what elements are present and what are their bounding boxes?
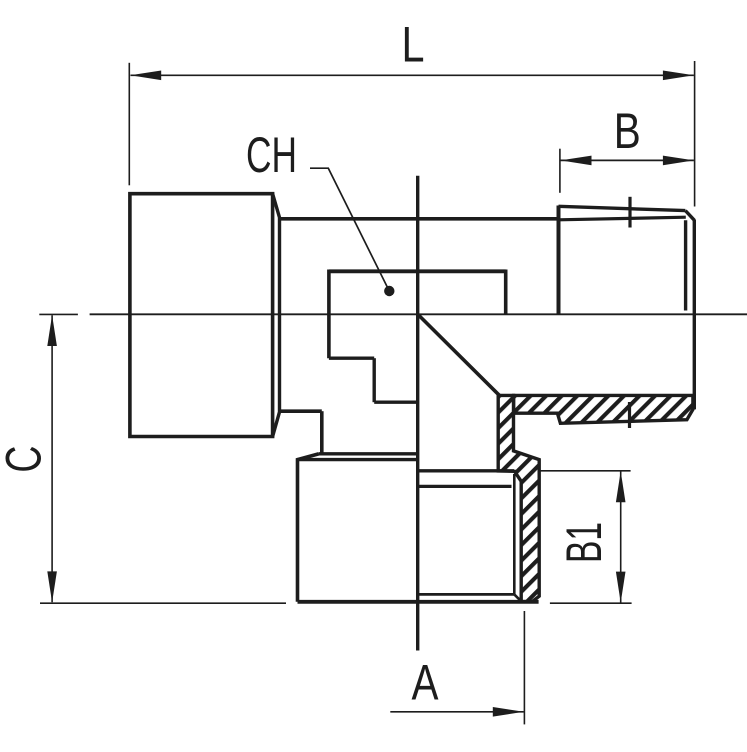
male thread crest line xyxy=(559,206,686,210)
male thread left edge xyxy=(557,206,561,314)
svg-text:CH: CH xyxy=(246,127,297,183)
male thread end face xyxy=(693,220,696,410)
dimension B arrow right xyxy=(663,156,694,166)
hex nut chamfer edge xyxy=(273,194,280,437)
port top near edge xyxy=(298,458,419,461)
vertical centerline xyxy=(416,176,419,651)
svg-text:B: B xyxy=(614,103,641,159)
dimension L arrow left xyxy=(130,71,161,81)
dimension C arrow bottom xyxy=(47,571,57,602)
port thread start line xyxy=(418,485,512,488)
CH leader line xyxy=(310,168,389,290)
thread limit tick bottom xyxy=(628,402,631,428)
port top far edge xyxy=(319,452,419,455)
port counterbore line xyxy=(418,469,514,472)
horizontal centerline xyxy=(90,313,747,315)
dimension A arrow xyxy=(493,707,524,717)
male thread root line xyxy=(559,217,686,220)
section diagonal cut xyxy=(419,315,500,396)
dimension A line xyxy=(390,711,524,713)
internal step vertical xyxy=(373,358,376,402)
dimension C extension bottom xyxy=(40,602,286,604)
CH socket box top xyxy=(329,269,506,273)
port thread crest line xyxy=(513,474,516,594)
svg-text:B1: B1 xyxy=(556,522,612,563)
dimension C arrow top xyxy=(47,315,57,346)
body bottom edge xyxy=(280,409,322,413)
CH socket box left edge xyxy=(327,270,331,359)
dimension B1 arrow top xyxy=(616,471,626,502)
dimension B1 line xyxy=(620,472,622,603)
internal step 2 horizontal xyxy=(374,401,418,404)
dimension B1 extension top xyxy=(541,470,631,472)
dimension L extension left xyxy=(128,63,130,186)
dimension L extension right xyxy=(694,61,696,207)
dimension B line xyxy=(561,159,694,161)
dimension B1 arrow bottom xyxy=(616,572,626,603)
svg-text:L: L xyxy=(402,17,425,73)
male thread chamfer inner edge xyxy=(684,220,687,310)
dimension B1 extension bottom xyxy=(550,602,632,604)
dimension L arrow right xyxy=(663,71,694,81)
CH socket box right edge xyxy=(504,270,508,314)
dimension C line xyxy=(51,315,53,602)
body top edge xyxy=(280,217,559,221)
port bottom chamfer diagonal xyxy=(514,594,521,601)
neck left edge xyxy=(320,411,324,453)
dimension A extension xyxy=(523,611,525,724)
svg-text:A: A xyxy=(412,654,440,710)
hatched wall branch right xyxy=(498,395,539,601)
thread limit tick top xyxy=(628,197,631,228)
hex nut left (outside view) xyxy=(130,194,273,437)
bottom port left outside view xyxy=(298,454,320,602)
dimension B extension left xyxy=(559,149,561,193)
internal step 1 horizontal xyxy=(329,357,374,360)
dimension C extension top xyxy=(39,313,78,315)
dimension B arrow left xyxy=(561,156,592,166)
port bottom face xyxy=(298,600,539,604)
male thread end chamfer xyxy=(685,211,694,221)
svg-text:C: C xyxy=(0,446,52,473)
dimension L line xyxy=(131,74,694,76)
hatched wall male end bottom xyxy=(514,395,693,423)
CH leader dot xyxy=(384,286,394,296)
port bottom chamfer line xyxy=(418,593,514,596)
